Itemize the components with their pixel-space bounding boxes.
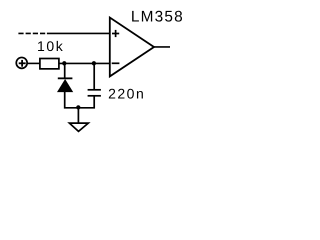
svg-text:220n: 220n [108,86,145,102]
svg-text:10k: 10k [37,38,64,54]
svg-text:LM358: LM358 [131,9,184,26]
